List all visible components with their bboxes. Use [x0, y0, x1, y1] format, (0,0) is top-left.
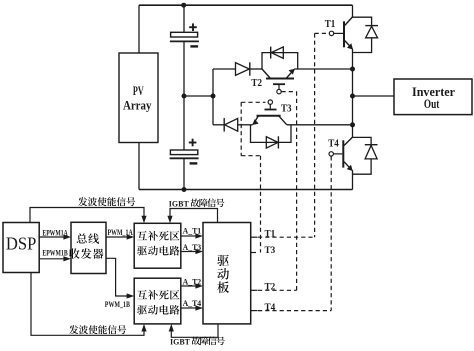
wire to Inverter Out: [353, 95, 395, 97]
svg-text:T2: T2: [265, 283, 276, 293]
diode D2 (series, pointing right): [236, 63, 250, 76]
wire T1 stub from driver board: [251, 236, 258, 238]
wire IGBT fault signal bottom: [171, 324, 218, 337]
wire C2 bottom lead: [183, 158, 185, 189]
T4 gate terminal: [329, 152, 333, 156]
wire D2 to T2: [250, 68, 262, 70]
wire A_T4: [181, 307, 197, 309]
wire D3 to T3: [238, 124, 253, 126]
label 驱动电路 (1): [137, 246, 147, 255]
wire right leg top: [352, 5, 354, 17]
svg-text:T2: T2: [251, 78, 262, 89]
wire EPWM1A: [39, 236, 64, 238]
wire T2 emitter to right leg: [294, 68, 352, 70]
svg-text:A_T1: A_T1: [183, 227, 202, 236]
driver board box: [203, 223, 251, 324]
capacitor C1 (electrolytic, + top): [171, 32, 198, 37]
transistor T4 (IGBT): [342, 140, 344, 167]
node: right leg lower: [350, 122, 355, 127]
svg-text:PWM_1A: PWM_1A: [108, 228, 133, 237]
bus transceiver box: [71, 222, 106, 273]
node: output: [350, 94, 355, 99]
wire PWM_1B: [106, 258, 128, 296]
wire cap C1 top lead: [183, 5, 185, 32]
svg-text:Out: Out: [424, 97, 440, 111]
T2 gate terminal: [277, 89, 281, 93]
wire T2 stub from driver board: [251, 289, 258, 291]
label 总线: [77, 233, 87, 243]
diode D3 (series, pointing left): [225, 118, 238, 131]
dead-zone drive circuit box 1: [134, 223, 181, 268]
label C2 minus: [190, 162, 198, 164]
svg-text:EPWM1B: EPWM1B: [42, 248, 68, 257]
wire T4 stub from driver board: [251, 310, 258, 312]
PV Array box: [119, 53, 158, 143]
diode D3p (antiparallel under T3, pointing right): [251, 125, 292, 143]
wire bottom DC bus: [139, 189, 353, 191]
node: capacitor midpoint: [182, 94, 187, 99]
Inverter Out box: [394, 79, 472, 115]
label C2 plus: [189, 142, 197, 144]
wire T3 to right leg: [287, 124, 353, 126]
wire PV top lead: [138, 5, 140, 53]
node: top bus / C1 junction: [181, 3, 186, 8]
svg-text:A_T4: A_T4: [183, 299, 202, 308]
label C1 minus: [190, 45, 198, 47]
wire enable signal bottom: [31, 273, 144, 336]
wire PV bottom lead: [138, 143, 140, 190]
wire branch vertical: [212, 69, 214, 125]
svg-text:T4: T4: [328, 138, 339, 149]
label 收发器: [69, 248, 79, 258]
svg-text:T3: T3: [281, 104, 292, 115]
wire T4 gate dashed route: [330, 156, 332, 310]
svg-text:EPWM1A: EPWM1A: [42, 229, 67, 238]
label 互补死区 (2): [137, 290, 147, 299]
diode D2p (antiparallel over T2, pointing left): [262, 53, 298, 69]
DSP box: [3, 223, 39, 273]
diode D1 (antiparallel T1, pointing up): [353, 17, 372, 25]
label C1 plus: [189, 26, 197, 28]
wire T4 emitter to bottom bus: [352, 170, 354, 189]
dead-zone drive circuit box 2: [134, 278, 181, 324]
wire T2 gate dashed route: [282, 91, 297, 93]
svg-text:PWM_1B: PWM_1B: [105, 300, 131, 309]
svg-text:IGBT: IGBT: [169, 198, 189, 208]
wire T3 stub from driver board: [250, 252, 256, 254]
svg-text:T1: T1: [265, 230, 276, 240]
wire cap C2 top lead: [183, 96, 185, 150]
svg-text:DSP: DSP: [6, 233, 36, 253]
node: bottom bus / C2 junction: [182, 187, 187, 192]
wire A_T2: [181, 285, 197, 287]
wire C1 bottom lead: [183, 41, 185, 96]
wire IGBT fault signal top: [170, 209, 218, 223]
svg-text:T4: T4: [265, 303, 276, 313]
label 驱动电路 (2): [137, 305, 147, 314]
transistor T1 (IGBT): [343, 21, 345, 47]
svg-text:Array: Array: [123, 97, 152, 112]
wire A_T3: [181, 251, 197, 253]
wire enable signal top: [30, 208, 144, 223]
svg-text:PV: PV: [133, 83, 144, 98]
transistor T2 (IGBT, rotated, gate down): [266, 78, 294, 80]
T3 gate terminal: [268, 100, 272, 104]
diode D4 (antiparallel T4, pointing up): [353, 137, 372, 144]
wire A_T1: [181, 235, 197, 237]
wire right leg T1-T4: [352, 49, 354, 138]
label 发波使能信号 (top): [78, 197, 87, 206]
wire T1 gate dashed route: [315, 32, 330, 34]
wire midpoint to branch node: [184, 95, 213, 97]
svg-text:IGBT: IGBT: [170, 336, 190, 346]
svg-text:T3: T3: [265, 246, 276, 256]
T1 gate terminal: [329, 31, 333, 35]
transistor T3 (IGBT, rotated, gate up, emitter left): [257, 115, 281, 117]
label 发波使能信号 (bottom): [69, 325, 78, 334]
svg-text:A_T3: A_T3: [183, 243, 202, 252]
wire EPWM1B: [39, 258, 64, 260]
label 驱: [217, 255, 229, 266]
svg-text:A_T2: A_T2: [183, 278, 202, 287]
capacitor C2 (electrolytic, + top): [170, 150, 197, 155]
svg-text:T1: T1: [325, 19, 336, 30]
wire PWM_1A: [106, 236, 128, 238]
label 互补死区 (1): [137, 231, 147, 240]
label 板: [217, 281, 229, 293]
node: branch split: [211, 94, 216, 99]
wire lower branch to diode D3: [213, 124, 224, 126]
node: right leg upper: [350, 67, 355, 72]
wire upper branch to diode D2: [213, 68, 236, 70]
label 动: [217, 268, 229, 280]
wire top DC bus: [139, 4, 353, 6]
wire T3 gate dashed box: [241, 101, 265, 103]
